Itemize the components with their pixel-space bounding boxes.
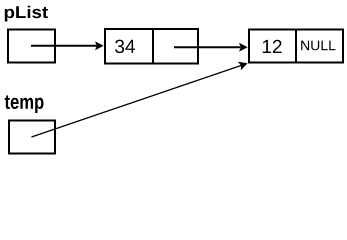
node2 box: [249, 30, 343, 63]
node1 value 34: [115, 40, 135, 54]
label temp: [5, 95, 44, 113]
wire node1 to node2: [174, 46, 241, 48]
node2 value 12: [263, 40, 282, 53]
arrowhead at node1: [95, 41, 104, 50]
node2 NULL: [301, 41, 335, 51]
node1 box: [105, 29, 198, 64]
wire temp to node2 (diagonal): [32, 66, 242, 138]
arrowhead at node2: [239, 43, 248, 52]
arrowhead at node2 bottom-left: [238, 62, 248, 70]
pointer box pList: [8, 30, 55, 63]
node2 divider: [295, 29, 297, 64]
pointer box temp: [9, 121, 55, 154]
node1 divider: [152, 28, 154, 64]
label pList: [5, 6, 48, 22]
wire pList to node1: [31, 45, 97, 47]
